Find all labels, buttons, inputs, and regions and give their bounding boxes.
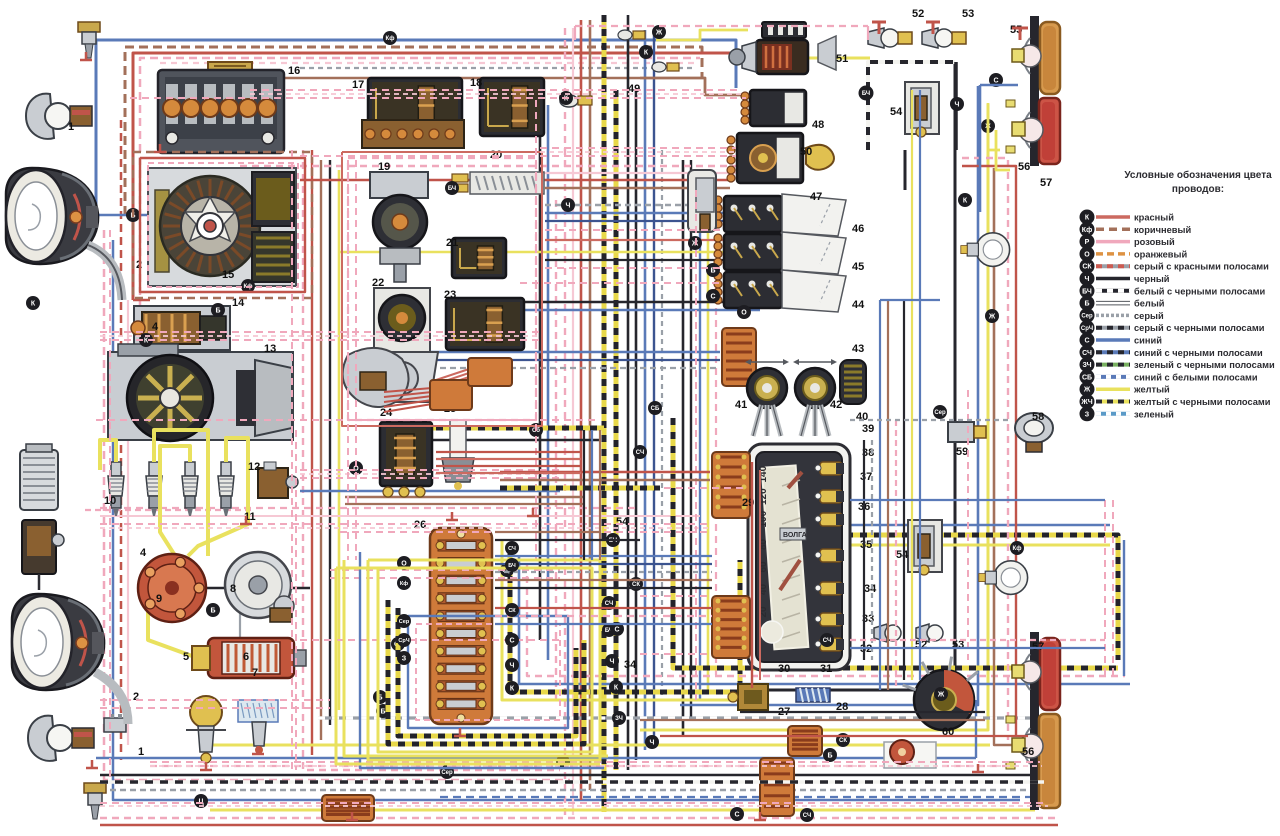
svg-text:45: 45 — [852, 261, 864, 273]
svg-text:БЧ: БЧ — [448, 186, 456, 192]
svg-text:13: 13 — [264, 343, 276, 355]
svg-text:53: 53 — [962, 8, 974, 20]
svg-text:56: 56 — [1018, 161, 1030, 173]
svg-text:С: С — [734, 812, 739, 819]
svg-text:СЧ: СЧ — [605, 601, 613, 607]
svg-text:БЧ: БЧ — [1082, 288, 1092, 295]
svg-text:Б: Б — [1084, 301, 1089, 308]
svg-text:41: 41 — [735, 399, 747, 411]
svg-text:5: 5 — [183, 651, 189, 663]
svg-text:Кф: Кф — [1013, 545, 1022, 552]
svg-text:56: 56 — [1022, 746, 1034, 758]
svg-text:О: О — [741, 310, 747, 317]
svg-text:СК: СК — [1082, 264, 1092, 271]
svg-text:С: С — [710, 294, 715, 301]
svg-text:Ч: Ч — [955, 102, 960, 109]
svg-text:24: 24 — [380, 407, 393, 419]
svg-text:Р: Р — [1085, 239, 1090, 246]
svg-text:Сер: Сер — [1081, 314, 1093, 320]
svg-text:С: С — [1084, 338, 1089, 345]
svg-text:8: 8 — [230, 583, 236, 595]
svg-text:Ж: Ж — [691, 241, 699, 248]
svg-text:К: К — [564, 96, 569, 103]
svg-text:оранжевый: оранжевый — [1134, 249, 1187, 259]
svg-text:ЗЧ: ЗЧ — [1082, 362, 1091, 369]
svg-text:черный: черный — [1134, 274, 1170, 284]
svg-text:К: К — [31, 301, 36, 308]
svg-text:Кф: Кф — [386, 35, 395, 42]
svg-text:54: 54 — [896, 549, 909, 561]
svg-text:35: 35 — [860, 539, 872, 551]
svg-text:ЖЧ: ЖЧ — [1080, 399, 1092, 406]
svg-text:39: 39 — [862, 423, 874, 435]
svg-text:белый: белый — [1134, 299, 1165, 309]
svg-text:желтый с черными полосами: желтый с черными полосами — [1133, 397, 1271, 407]
svg-text:красный: красный — [1134, 213, 1174, 223]
svg-text:СК: СК — [508, 608, 516, 614]
svg-text:белый с черными полосами: белый с черными полосами — [1134, 286, 1266, 296]
svg-text:52: 52 — [912, 8, 924, 20]
svg-text:34: 34 — [864, 583, 877, 595]
svg-text:Ч: Ч — [510, 663, 515, 670]
svg-text:СЧ: СЧ — [508, 546, 516, 552]
svg-text:СЧ: СЧ — [636, 450, 644, 456]
svg-text:22: 22 — [372, 277, 384, 289]
svg-text:С: С — [993, 78, 998, 85]
svg-text:Условные обозначения цвета: Условные обозначения цвета — [1124, 169, 1272, 181]
svg-text:Ж: Ж — [655, 30, 663, 37]
svg-text:синий с белыми полосами: синий с белыми полосами — [1134, 372, 1258, 382]
svg-text:БЧ: БЧ — [862, 91, 870, 97]
svg-text:Ж: Ж — [1083, 387, 1091, 394]
svg-text:синий с черными полосами: синий с черными полосами — [1134, 348, 1263, 358]
svg-text:48: 48 — [812, 119, 824, 131]
svg-text:Сер: Сер — [399, 619, 410, 625]
svg-text:59: 59 — [956, 446, 968, 458]
svg-text:47: 47 — [810, 191, 822, 203]
svg-text:15: 15 — [222, 269, 234, 281]
svg-text:57: 57 — [1040, 177, 1052, 189]
svg-text:19: 19 — [378, 161, 390, 173]
svg-text:К: К — [644, 50, 649, 57]
svg-text:СК: СК — [839, 738, 847, 744]
svg-text:К: К — [963, 198, 968, 205]
svg-text:42: 42 — [830, 399, 842, 411]
svg-text:К: К — [510, 686, 515, 693]
svg-text:30: 30 — [778, 663, 790, 675]
svg-text:1: 1 — [138, 746, 144, 758]
svg-text:З: З — [1085, 411, 1090, 418]
svg-text:желтый: желтый — [1133, 385, 1170, 395]
svg-text:43: 43 — [852, 343, 864, 355]
svg-text:С: С — [509, 638, 514, 645]
svg-text:2: 2 — [133, 691, 139, 703]
svg-text:Сер: Сер — [934, 410, 946, 416]
svg-text:16: 16 — [288, 65, 300, 77]
svg-text:54: 54 — [616, 516, 629, 528]
svg-text:46: 46 — [852, 223, 864, 235]
svg-text:СБ: СБ — [651, 406, 660, 412]
svg-text:СрЧ: СрЧ — [398, 638, 409, 644]
svg-text:розовый: розовый — [1134, 237, 1175, 247]
svg-text:СЧ: СЧ — [823, 638, 831, 644]
svg-text:Ч: Ч — [610, 659, 615, 666]
svg-text:9: 9 — [156, 593, 162, 605]
svg-text:серый: серый — [1134, 311, 1164, 321]
svg-text:58: 58 — [1032, 411, 1044, 423]
svg-text:Сер: Сер — [441, 770, 453, 776]
svg-text:18: 18 — [470, 77, 482, 89]
svg-text:Ж: Ж — [937, 692, 945, 699]
svg-text:БЧ: БЧ — [508, 563, 516, 569]
svg-text:Кф: Кф — [1082, 227, 1092, 234]
svg-text:серый с красными полосами: серый с красными полосами — [1134, 262, 1269, 272]
svg-text:Кф: Кф — [400, 580, 408, 587]
svg-text:54: 54 — [890, 106, 903, 118]
svg-text:С: С — [614, 627, 619, 634]
svg-text:Б: Б — [827, 753, 832, 760]
svg-text:проводов:: проводов: — [1172, 184, 1224, 195]
svg-text:К: К — [144, 338, 149, 345]
svg-text:коричневый: коричневый — [1134, 225, 1191, 235]
svg-text:40: 40 — [856, 411, 868, 423]
svg-text:23: 23 — [444, 289, 456, 301]
svg-text:З: З — [402, 656, 407, 663]
svg-text:7: 7 — [252, 667, 258, 679]
svg-text:Ч: Ч — [650, 740, 655, 747]
svg-text:серый с черными полосами: серый с черными полосами — [1134, 323, 1265, 333]
svg-text:Ж: Ж — [988, 314, 996, 321]
svg-text:Б: Б — [210, 608, 215, 615]
svg-text:31: 31 — [820, 663, 832, 675]
svg-text:4: 4 — [140, 547, 147, 559]
svg-text:12: 12 — [248, 461, 260, 473]
svg-text:ЗЧ: ЗЧ — [615, 716, 623, 722]
svg-text:ВОЛГА: ВОЛГА — [783, 532, 807, 539]
svg-text:37: 37 — [860, 471, 872, 483]
svg-text:44: 44 — [852, 299, 865, 311]
svg-text:СЧ: СЧ — [803, 813, 811, 819]
svg-text:50: 50 — [800, 146, 812, 158]
svg-text:1: 1 — [68, 121, 74, 133]
svg-text:21: 21 — [446, 237, 458, 249]
svg-text:Б: Б — [380, 709, 385, 716]
svg-text:6: 6 — [243, 651, 249, 663]
svg-text:Ч: Ч — [1085, 276, 1090, 283]
svg-text:СрЧ: СрЧ — [1081, 326, 1093, 332]
svg-text:СЧ: СЧ — [1082, 350, 1092, 357]
svg-text:зеленый: зеленый — [1134, 409, 1174, 419]
svg-text:О: О — [1084, 251, 1090, 258]
svg-text:Ч: Ч — [566, 203, 571, 210]
svg-text:К: К — [614, 685, 619, 692]
svg-text:О: О — [401, 561, 407, 568]
svg-text:К: К — [1085, 215, 1090, 222]
svg-text:синий: синий — [1134, 336, 1162, 346]
svg-text:зеленый с черными полосами: зеленый с черными полосами — [1134, 360, 1275, 370]
svg-text:Б: Б — [215, 308, 220, 315]
svg-text:51: 51 — [836, 53, 848, 65]
svg-text:СБ: СБ — [1082, 374, 1092, 381]
svg-text:34: 34 — [624, 659, 637, 671]
